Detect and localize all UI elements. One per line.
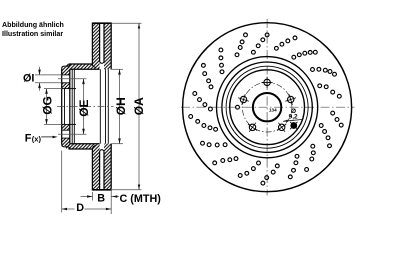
svg-text:134: 134 <box>269 108 277 113</box>
svg-text:Illustration similar: Illustration similar <box>2 30 63 38</box>
svg-text:D: D <box>76 202 84 214</box>
svg-text:9,2: 9,2 <box>289 114 298 121</box>
svg-text:ØI: ØI <box>23 72 34 84</box>
svg-text:ØG: ØG <box>41 96 55 115</box>
svg-text:Abbildung ähnlich: Abbildung ähnlich <box>2 21 64 29</box>
svg-text:ØH: ØH <box>114 97 128 115</box>
svg-text:ØE: ØE <box>77 99 91 116</box>
svg-text:ØA: ØA <box>132 97 146 115</box>
svg-text:(x): (x) <box>32 134 42 143</box>
svg-text:F: F <box>25 133 32 145</box>
svg-text:C (MTH): C (MTH) <box>120 193 162 205</box>
svg-text:B: B <box>97 192 105 204</box>
